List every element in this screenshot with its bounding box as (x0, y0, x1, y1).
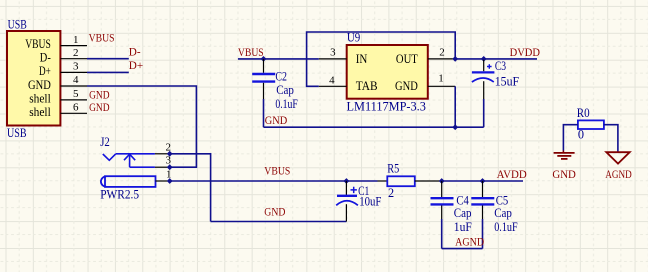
regulator U9 comment (347, 99, 426, 113)
svg-text:R0: R0 (577, 106, 590, 120)
connector USB comment (7, 126, 27, 140)
wire R0 right (604, 125, 618, 153)
junction C2 (261, 56, 267, 62)
wire AVDD (442, 180, 523, 182)
svg-text:0.1uF: 0.1uF (494, 220, 518, 234)
wire GND bottom rail (211, 221, 347, 223)
svg-text:Cap: Cap (454, 206, 472, 220)
wire R0 left (563, 125, 578, 151)
capacitor C4 (431, 181, 472, 249)
net label D+ (129, 60, 143, 72)
J2 pin 1 (156, 169, 172, 182)
svg-text:2: 2 (388, 186, 394, 200)
svg-text:1: 1 (166, 169, 172, 181)
capacitor C3 (472, 56, 519, 127)
svg-text:0.1uF: 0.1uF (275, 97, 298, 111)
resistor R5 (378, 162, 442, 201)
svg-text:5: 5 (73, 88, 79, 100)
svg-text:DVDD: DVDD (510, 47, 540, 59)
USB pin 2 (40, 47, 87, 64)
resistor R0 (577, 106, 604, 142)
svg-text:1: 1 (73, 34, 79, 46)
svg-text:PWR2.5: PWR2.5 (100, 188, 139, 202)
wire U9 pin1 to GND rail (454, 86, 456, 127)
wire AGND rail (442, 248, 483, 250)
svg-text:AVDD: AVDD (497, 169, 527, 181)
net label GND (bottom rail) (264, 207, 285, 219)
svg-text:VBUS: VBUS (89, 33, 115, 45)
svg-text:VBUS: VBUS (264, 166, 290, 178)
svg-text:0: 0 (578, 128, 584, 142)
svg-text:6: 6 (73, 102, 79, 114)
svg-text:D+: D+ (129, 60, 143, 72)
junction OUT (452, 56, 458, 62)
J2 comment PWR2.5 (100, 188, 139, 202)
U9 pin 2 (428, 47, 455, 59)
J2 pin 3 (155, 155, 172, 168)
J2 barrel (101, 176, 156, 187)
svg-text:15uF: 15uF (495, 75, 520, 89)
wire TAB loop (307, 32, 456, 86)
ground AGND symbol (605, 152, 632, 181)
svg-text:D-: D- (129, 47, 141, 59)
USB pin 6 (29, 102, 87, 120)
U9 pin 1 (428, 73, 455, 87)
net label VBUS (USB pin 1) (89, 33, 115, 45)
capacitor C1 (336, 178, 381, 221)
junction U9 GND (452, 124, 458, 130)
svg-text:4: 4 (73, 74, 79, 86)
net label DVDD (510, 47, 540, 59)
svg-text:10uF: 10uF (359, 194, 381, 208)
ground GND symbol (552, 151, 576, 181)
regulator U9 designator (347, 31, 360, 45)
svg-text:3: 3 (166, 155, 172, 167)
svg-text:GND: GND (264, 207, 285, 219)
net label GND (USB pin 6) (89, 102, 110, 114)
regulator U9 body (347, 45, 428, 99)
svg-text:USB: USB (7, 126, 27, 140)
net label VBUS (U9 input) (238, 47, 264, 59)
J2 pin 2 (155, 142, 171, 154)
wire J2 pin2 to GND rail (170, 154, 211, 222)
net label AGND (455, 237, 484, 249)
svg-text:J2: J2 (100, 135, 110, 149)
svg-text:Cap: Cap (276, 83, 294, 97)
svg-text:AGND: AGND (455, 237, 484, 249)
svg-text:1: 1 (438, 73, 444, 85)
J2 arrow contact (124, 154, 155, 167)
svg-text:LM1117MP-3.3: LM1117MP-3.3 (347, 99, 426, 113)
svg-text:3: 3 (73, 61, 79, 73)
svg-text:GND: GND (265, 115, 288, 127)
USB pin 1 (25, 34, 87, 51)
U9 pin 3 (319, 47, 347, 59)
svg-text:GND: GND (552, 169, 576, 181)
svg-text:C3: C3 (495, 59, 506, 73)
svg-text:GND: GND (89, 102, 110, 114)
net label VBUS (bottom rail) (264, 166, 290, 178)
svg-text:C2: C2 (275, 70, 287, 84)
wire USB pin4 to J2 pin3 (87, 86, 196, 167)
svg-text:Cap: Cap (494, 206, 512, 220)
svg-text:OUT: OUT (396, 51, 418, 66)
capacitor C2 (252, 59, 298, 127)
svg-text:4: 4 (329, 75, 335, 87)
USB pin 5 (29, 88, 87, 105)
svg-text:1uF: 1uF (454, 220, 472, 234)
svg-text:shell: shell (29, 104, 51, 119)
net label GND (mid rail) (265, 115, 288, 127)
wire GND mid rail (264, 126, 484, 128)
capacitor C5 (471, 181, 518, 249)
net label D- (129, 47, 141, 59)
svg-text:GND: GND (89, 90, 110, 102)
svg-text:TAB: TAB (356, 78, 378, 93)
svg-text:3: 3 (330, 47, 336, 59)
wire D+ (87, 71, 129, 73)
junction C5 (480, 178, 486, 184)
svg-text:AGND: AGND (605, 169, 632, 181)
connector USB body (7, 31, 60, 126)
svg-text:2: 2 (73, 47, 79, 59)
svg-text:USB: USB (8, 17, 27, 31)
svg-text:IN: IN (356, 51, 368, 66)
wire DVDD (455, 58, 537, 60)
svg-text:GND: GND (395, 78, 418, 93)
USB pin 4 (28, 74, 87, 92)
connector USB designator (8, 17, 27, 31)
J2 switch contact (103, 154, 155, 161)
svg-text:2: 2 (439, 47, 445, 59)
junction J2 pin 1 (167, 178, 173, 184)
USB pin 3 (39, 61, 87, 79)
wire D- (87, 58, 129, 60)
junction J2 pin 2 (167, 151, 173, 157)
svg-text:R5: R5 (387, 162, 399, 176)
wire VBUS rail (170, 180, 378, 182)
junction J2 pin 3 (167, 164, 173, 170)
net label AVDD (497, 169, 527, 181)
svg-text:VBUS: VBUS (238, 47, 264, 59)
net label GND (USB pin 5) (89, 90, 110, 102)
wire VBUS to U9 (238, 58, 319, 60)
U9 pin 4 (319, 75, 347, 87)
connector J2 designator (100, 135, 110, 149)
junction C4 (439, 178, 445, 184)
